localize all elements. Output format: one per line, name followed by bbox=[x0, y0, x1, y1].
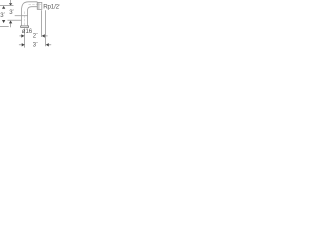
svg-text:3″: 3″ bbox=[0, 11, 5, 19]
svg-text:2″: 2″ bbox=[33, 32, 38, 40]
svg-text:Rp1/2″: Rp1/2″ bbox=[43, 4, 60, 11]
svg-text:3″: 3″ bbox=[33, 40, 38, 48]
svg-text:ø16: ø16 bbox=[22, 29, 33, 35]
svg-text:3″: 3″ bbox=[9, 8, 14, 16]
